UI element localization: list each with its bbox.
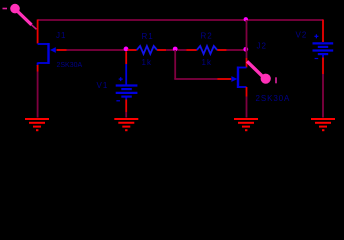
wire R2 left red lead bbox=[186, 49, 197, 51]
wire R2 to J2 drain node bbox=[227, 49, 245, 51]
transistor J1 bbox=[38, 43, 56, 66]
svg-text:2SK30A: 2SK30A bbox=[256, 94, 291, 103]
node D junction on rail bbox=[244, 17, 248, 21]
svg-text:1k: 1k bbox=[142, 58, 152, 67]
wire node B to R2 bbox=[178, 49, 187, 51]
battery V2 bbox=[313, 34, 334, 58]
probe 2 (on J2 drain wire) bbox=[247, 61, 276, 83]
wire V2 bottom red stub bbox=[322, 58, 324, 75]
wire node B to J2 gate bbox=[174, 78, 217, 80]
resistor R1 bbox=[137, 46, 157, 54]
wire J1 drain to rail bbox=[37, 20, 39, 44]
wire V1 to ground bbox=[125, 112, 127, 118]
wire R1 to node B bbox=[166, 49, 173, 51]
wire J2 gate red stub bbox=[217, 78, 231, 80]
svg-text:R2: R2 bbox=[201, 32, 213, 41]
ground (J1 source) bbox=[25, 119, 49, 130]
svg-text:1k: 1k bbox=[202, 58, 212, 67]
wire R1 right red lead bbox=[157, 49, 166, 51]
node A junction bbox=[124, 47, 129, 52]
wire node A red stub down bbox=[125, 52, 127, 65]
svg-text:V2: V2 bbox=[296, 31, 308, 40]
svg-text:J1: J1 bbox=[56, 31, 66, 40]
svg-text:2SK30A: 2SK30A bbox=[57, 62, 83, 69]
wire V2 top red stub bbox=[322, 20, 324, 43]
ground (V1) bbox=[114, 119, 138, 130]
wire R2 right red lead bbox=[217, 49, 226, 51]
wire V1 bottom red stub bbox=[125, 100, 127, 113]
wire J1 source red stub bbox=[37, 65, 39, 72]
wire J2 drain red stub bbox=[246, 58, 248, 68]
probe 1 (on J1 drain wire) bbox=[3, 4, 37, 30]
ground (J2 source) bbox=[234, 119, 258, 130]
wire V2 to ground bbox=[322, 74, 324, 118]
node C junction on drain wire bbox=[243, 47, 248, 52]
wire J1 gate red stub bbox=[57, 49, 67, 51]
wire J2 source red stub bbox=[246, 87, 248, 97]
ground (V2) bbox=[311, 119, 335, 130]
wire J2 source to ground bbox=[246, 97, 248, 118]
transistor J2 bbox=[231, 67, 246, 89]
node B junction bbox=[173, 47, 178, 52]
wire J1 gate to node A bbox=[67, 49, 125, 51]
wire node A to R1 (red lead) bbox=[128, 49, 137, 51]
svg-text:V1: V1 bbox=[97, 81, 109, 90]
battery V1 bbox=[116, 64, 138, 101]
svg-text:J2: J2 bbox=[257, 42, 267, 51]
wire rail down to J2 drain bbox=[246, 20, 248, 58]
wire node B down bbox=[174, 50, 176, 79]
wire top supply rail bbox=[38, 19, 323, 21]
wire J1 source to ground bbox=[37, 72, 39, 118]
resistor R2 bbox=[197, 46, 217, 54]
svg-text:R1: R1 bbox=[142, 32, 154, 41]
